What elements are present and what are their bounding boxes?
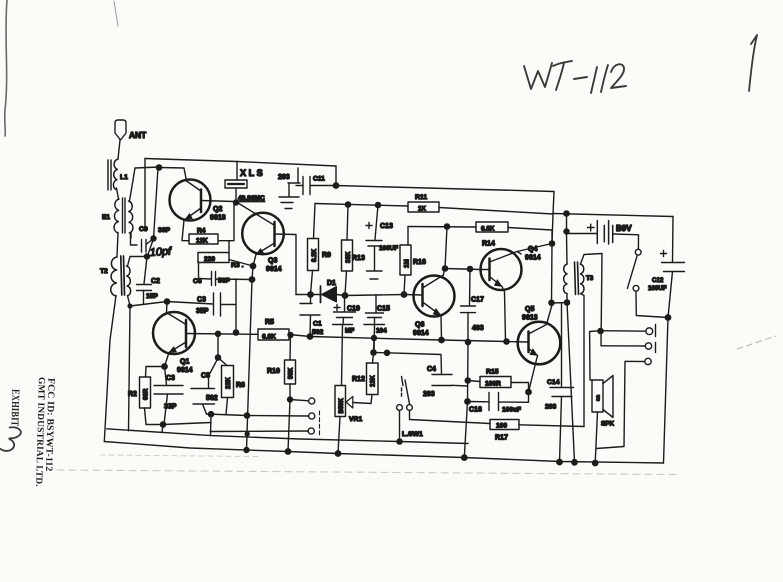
svg-text:L1: L1 (120, 174, 128, 181)
svg-text:C13: C13 (380, 223, 393, 230)
wire Q2 base to crystal node (201, 201, 236, 241)
svg-text:9014: 9014 (177, 367, 193, 374)
PART8:SWITCHROW (374, 350, 585, 444)
inductor L1 (113, 159, 118, 190)
svg-text:8Ω: 8Ω (596, 395, 601, 401)
wire battery column to Q4 collector (551, 230, 553, 244)
node Q4 base row left (442, 266, 447, 271)
svg-text:100UF: 100UF (648, 285, 667, 292)
wire node down to C2 (144, 257, 147, 285)
wire T3 right bottom drop (581, 294, 585, 427)
wire top rail A (145, 159, 336, 167)
resistor R6 22K (219, 358, 228, 366)
PART10:BOTTOM (104, 429, 663, 466)
svg-text:100uF: 100uF (502, 407, 521, 414)
node battery column low (549, 300, 554, 305)
jack terminal circles right (646, 328, 653, 335)
svg-text:Q3: Q3 (268, 258, 277, 265)
wire jack low to C8 row drop (210, 430, 308, 433)
svg-text:D1: D1 (327, 280, 336, 287)
scan tick top (114, 1, 118, 26)
svg-text:C1: C1 (313, 321, 322, 328)
node bottom row right (bus) (244, 413, 249, 418)
node battery branch (564, 211, 569, 216)
wire 6.8K right to battery column (508, 228, 552, 231)
svg-text:10pf: 10pf (149, 245, 172, 259)
node R13 top (345, 202, 350, 207)
svg-text:12K: 12K (370, 375, 377, 387)
wire Q3 emitter to node (253, 255, 256, 267)
wire emitter bus upper (252, 266, 253, 280)
wire switch pole2 to R17 (410, 410, 491, 423)
faint dashed fold line bottom (57, 470, 676, 475)
node R16/6.8K (444, 224, 449, 229)
node bus main rail (244, 448, 249, 453)
wire node to Q3 collector (diagonal) (236, 203, 274, 226)
wire T3 left top to battery node (566, 234, 569, 265)
node rail R10 (285, 449, 290, 454)
transistor Q6 (414, 276, 455, 317)
resistor R10 56K (288, 333, 293, 338)
wire detector row right (345, 295, 404, 296)
wire R9 top lead (314, 204, 316, 239)
wire bus to R15 (468, 381, 480, 382)
wire node down to rail2 (162, 425, 163, 433)
node bottom row left (208, 412, 213, 417)
node battery/Q4 (549, 241, 554, 246)
wire R12 top lead (373, 338, 375, 363)
resistor R16 1M (400, 245, 411, 275)
wire R4 to 220 (228, 241, 230, 253)
wire Q3 base right then down to detector line (275, 234, 297, 295)
svg-text:33K: 33K (345, 251, 352, 263)
svg-text:403: 403 (472, 325, 484, 332)
capacitor C6 56P row (199, 272, 253, 286)
svg-text:9013: 9013 (522, 315, 538, 322)
core T1 (123, 198, 126, 233)
wire ground rail2 (107, 429, 468, 444)
wire T1 secondary bottom (130, 233, 132, 238)
svg-text:203: 203 (545, 404, 557, 411)
wire T1 secondary top to node (130, 167, 160, 201)
speaker SPK (592, 380, 603, 412)
wire R10 to jack tip (290, 400, 309, 401)
node T2 top (145, 254, 150, 259)
svg-text:C4: C4 (427, 366, 436, 373)
wire Q5 emitter drop (529, 356, 538, 393)
wire 220 left lead down to C6 row (198, 262, 200, 279)
svg-text:R13: R13 (352, 255, 365, 262)
svg-text:502: 502 (312, 329, 324, 336)
transformer T2 right winding (127, 266, 131, 296)
svg-text:15P: 15P (146, 293, 158, 300)
wire R9 bottom lead (311, 271, 313, 295)
wire main ground rail (104, 442, 663, 464)
switch L.SW1 (402, 377, 410, 405)
svg-text:SPK: SPK (601, 421, 615, 428)
svg-text:8.2K: 8.2K (311, 248, 318, 262)
wire L1 to T1 (117, 188, 119, 199)
svg-text:Q1: Q1 (180, 359, 189, 366)
wire VR1 bottom to main rail (338, 417, 340, 454)
wire node to Q2 collector (159, 168, 187, 182)
handwritten pen slash top right (749, 35, 757, 91)
svg-text:C3: C3 (166, 375, 175, 382)
wire Q1 base row (186, 333, 258, 336)
wire switch drop (399, 410, 401, 441)
core T2 (121, 256, 125, 295)
PART4:TOPRAILS (145, 159, 673, 244)
transistor Q2 (170, 180, 211, 221)
wire R10 drop to main rail (288, 400, 290, 452)
node C1 bottom (307, 334, 312, 339)
wire Q6 collector riser (445, 227, 447, 269)
wire R16 bottom lead (404, 275, 405, 295)
wire jack mid to bus (247, 415, 309, 418)
node bus rail cross (465, 339, 470, 344)
wire R11 right (439, 208, 553, 215)
node C6 row right (249, 277, 254, 282)
wire node to speaker (590, 331, 601, 380)
wire C9 branch vertical b (154, 168, 159, 239)
wire R15 right to Q5 emitter node (511, 383, 529, 393)
resistor R9 8.2K (308, 239, 319, 271)
handwritten WT-112 (524, 61, 626, 93)
capacitor C2 (137, 285, 152, 291)
svg-text:C11: C11 (313, 176, 325, 183)
svg-text:203: 203 (423, 391, 435, 398)
PART6:IFAMP (289, 222, 555, 458)
node rail SPK (593, 460, 598, 465)
svg-text:30P: 30P (158, 227, 171, 234)
wire R10 bottom (289, 384, 291, 400)
svg-text:R2: R2 (128, 391, 137, 398)
capacitor C14 (561, 303, 563, 387)
svg-text:C14: C14 (547, 379, 560, 386)
svg-text:49.86MC: 49.86MC (238, 195, 265, 202)
resistor R2 68R (140, 377, 151, 408)
wire rail R11 row (315, 204, 408, 207)
wire Q6 emitter to rail (440, 316, 443, 340)
node T3 left bottom (564, 300, 569, 305)
wire speaker bottom (595, 412, 597, 463)
node C16 left (465, 399, 470, 404)
PART5:DETECTOR (296, 223, 407, 386)
node Q6 emitter rail (439, 337, 444, 342)
svg-text:X L S: X L S (240, 168, 263, 178)
jack dashed bar (319, 411, 321, 436)
svg-text:C6: C6 (193, 278, 202, 285)
svg-text:E1: E1 (102, 214, 110, 221)
svg-text:Q5: Q5 (525, 306, 534, 313)
svg-text:R10: R10 (267, 368, 280, 375)
node R10 bottom (288, 397, 293, 402)
svg-text:Q4: Q4 (528, 246, 537, 253)
wire detector row left (296, 294, 320, 296)
node C8/R6 split (215, 355, 220, 360)
wire C2 bottom (143, 291, 145, 305)
svg-text:C16: C16 (469, 407, 482, 414)
wire battery column (B+) down (551, 244, 554, 303)
wire jack2 (601, 345, 645, 347)
svg-text:R12: R12 (352, 376, 365, 383)
node bus rail2 cross (245, 432, 249, 436)
wire C17 bus down (464, 313, 468, 458)
node C13 top (375, 202, 380, 207)
svg-text:ANT: ANT (129, 130, 147, 140)
node T1-Q2 (156, 165, 161, 170)
wire T1 left bottom to T2 (117, 233, 118, 258)
node rail C14 (557, 459, 562, 464)
node R12/C4 tee (371, 350, 376, 355)
svg-text:104: 104 (376, 328, 387, 335)
wire rail C to right border (553, 214, 673, 217)
wire Q1 emitter drop (165, 353, 170, 367)
svg-text:9014: 9014 (413, 330, 429, 337)
svg-text:22K: 22K (225, 377, 232, 389)
svg-text:9014: 9014 (266, 266, 282, 273)
potentiometer VR1 B50K (335, 386, 346, 417)
svg-text:56K: 56K (288, 367, 295, 379)
svg-text:68R: 68R (143, 388, 150, 400)
svg-text:L.SW1: L.SW1 (402, 431, 423, 438)
node C12 column (665, 315, 670, 320)
wire Q4 emitter down to Q5 base (502, 287, 506, 342)
antenna ANT (115, 120, 126, 140)
svg-text:VR1: VR1 (349, 416, 362, 423)
svg-text:220: 220 (204, 256, 215, 263)
transformer T1 right winding (129, 201, 133, 233)
node R16 bottom junction (401, 292, 406, 297)
node R2/C3 bottom (160, 422, 165, 427)
wire rail B (336, 186, 554, 192)
wire right border down (664, 272, 673, 464)
node base-C3 branch (233, 330, 238, 335)
transistor Q3 (242, 213, 284, 255)
svg-text:R16: R16 (413, 259, 426, 266)
node VR1 ground (335, 451, 340, 456)
svg-text:R5: R5 (265, 319, 274, 326)
resistor R17 100 (490, 420, 519, 430)
wire ant lead (118, 140, 120, 159)
svg-text:33P: 33P (164, 404, 177, 411)
resistor R14 6.8K (476, 222, 508, 232)
svg-text:9018: 9018 (210, 215, 226, 222)
PART9:RIGHTSIDE (507, 214, 685, 464)
jack terminal circles left (309, 398, 315, 404)
svg-text:100UF: 100UF (379, 245, 398, 252)
handwritten 3 (rotated) (0, 425, 23, 455)
svg-text:100R: 100R (485, 381, 501, 388)
wire R13 bottom lead (345, 271, 347, 295)
svg-text:6.8K: 6.8K (262, 334, 276, 341)
wire C4 feed row (374, 353, 442, 375)
svg-text:R11: R11 (415, 194, 427, 201)
wire jack3 (596, 361, 644, 448)
svg-text:C17: C17 (471, 297, 484, 304)
transistor Q5 (518, 322, 561, 365)
svg-text:203: 203 (278, 174, 290, 181)
capacitor C16 100uF (468, 392, 529, 411)
svg-text:T2: T2 (100, 268, 108, 275)
svg-text:35P: 35P (196, 308, 209, 315)
node Q1 emitter junction (162, 364, 167, 369)
resistor R3 220 (198, 253, 229, 263)
wire 6.8K feed row (408, 226, 476, 229)
svg-text:R17: R17 (495, 435, 508, 442)
svg-text:502: 502 (206, 395, 218, 402)
wire battery to power switch (613, 234, 639, 249)
wire R16 top lead (407, 227, 409, 246)
wire C13 top lead (375, 205, 378, 240)
node Q1 collector junction (164, 299, 169, 304)
svg-text:B50K: B50K (339, 397, 345, 413)
jack contact bars (655, 325, 657, 353)
PART2:ANT-T1-T2 (100, 120, 187, 442)
svg-text:R14: R14 (482, 241, 495, 248)
svg-text:Q2: Q2 (213, 206, 222, 213)
PART7:Q1AUDIO (128, 279, 378, 456)
IF filter MF (333, 318, 353, 386)
svg-text:6.8K: 6.8K (481, 226, 495, 233)
capacitor C12 100UF (661, 251, 667, 257)
wire T3 left bottom (566, 294, 568, 303)
node detector left (308, 292, 313, 297)
node base-R6 branch (215, 331, 220, 336)
svg-text:EXHIBIT: EXHIBIT (8, 389, 21, 427)
wire T2 left bottom / outer border left (104, 296, 116, 442)
svg-text:R9: R9 (322, 252, 331, 259)
transformer T2 left winding (111, 257, 117, 296)
wire R2 bottom (145, 408, 212, 425)
power switch SW (635, 249, 641, 255)
svg-text:C2: C2 (151, 278, 160, 285)
wire rail A corner down (335, 166, 337, 186)
svg-text:C9: C9 (139, 226, 148, 233)
svg-text:1K: 1K (418, 206, 426, 213)
battery B9V (588, 224, 595, 231)
node speaker feed (598, 328, 603, 333)
svg-text:R15: R15 (486, 369, 499, 376)
node D1 cathode junction (342, 293, 347, 298)
svg-text:C15: C15 (377, 306, 390, 313)
wire C8/R6 bottom row (207, 414, 248, 416)
wire T2 secondary top to node (128, 257, 148, 267)
svg-text:C3: C3 (197, 297, 206, 304)
svg-text:56P: 56P (218, 278, 231, 285)
wire node to jack 1 (601, 330, 646, 333)
svg-text:1M: 1M (404, 259, 411, 268)
node rail T3 (572, 460, 577, 465)
wire R6 bottom (226, 398, 228, 415)
svg-text:12K: 12K (196, 238, 208, 245)
wire T2 secondary bottom to node (128, 296, 168, 307)
wire node drop to rail2 (210, 414, 213, 435)
capacitor C19 (334, 305, 340, 311)
node Q3 emitter (250, 263, 255, 268)
node C4 feed (384, 350, 389, 355)
capacitor C13 100UF (366, 223, 372, 229)
wire T3 left bottom long drop (567, 303, 575, 463)
wire Q2 emitter to R4 (182, 220, 189, 241)
wire emitter to R2 (146, 367, 165, 378)
svg-text:B9V: B9V (616, 224, 632, 233)
wire main bias rail R5 to Q5 (289, 335, 507, 342)
node Q5 emitter junction (526, 389, 531, 394)
scan edge artifact left (5, 0, 7, 136)
faint dashed diagonal right (737, 336, 776, 349)
node 104 rail cross (372, 336, 377, 341)
wire C8/R6 branch (217, 334, 219, 358)
wire VR1 wiper to R12 (353, 395, 372, 404)
wire Q4 base row (445, 269, 481, 270)
PART3:Q2-XLS-Q3 (170, 162, 297, 453)
wire C9 branch vertical a (144, 159, 146, 227)
node rail C17bus (462, 455, 467, 460)
wire Q5 collector row (553, 302, 568, 305)
svg-text:MF: MF (345, 328, 354, 335)
wire T2 bottom long drop to lower rail (129, 306, 131, 431)
node T2 bottom junction (128, 304, 132, 308)
resistor R13 33K (342, 240, 353, 271)
transformer T1 left winding (114, 199, 119, 233)
wire rail B corner down to battery column (552, 192, 554, 244)
wire T3 right top to speaker node (581, 254, 603, 346)
node Q4-Q5 junction (504, 339, 509, 344)
wire 220 right to Q3 emitter node (229, 260, 253, 267)
svg-text:R6: R6 (236, 382, 245, 389)
svg-text:C12: C12 (652, 277, 664, 284)
node rail B left (333, 183, 338, 188)
IF filter 104 (364, 318, 385, 353)
svg-text:100: 100 (496, 423, 507, 430)
wire switch to C12 column (636, 291, 668, 317)
resistor R12 12K (367, 363, 379, 395)
wire C4 bottom to C16 node (452, 384, 468, 387)
transistor Q4 (481, 249, 522, 290)
transistor Q1 (153, 312, 195, 354)
core T1 upper (108, 160, 111, 190)
svg-text:9014: 9014 (525, 255, 541, 262)
node R15 bus (465, 378, 470, 383)
capacitor C1 502 (300, 295, 320, 337)
wire R13 top lead (347, 205, 348, 241)
node switch rail2 (397, 439, 402, 444)
svg-text:T3: T3 (586, 275, 594, 282)
wire emitter bus long drop (247, 280, 253, 451)
wire R17 right to T3 column (519, 425, 584, 427)
node crystal base junction (234, 200, 239, 205)
svg-text:Q6: Q6 (415, 322, 424, 329)
node C17 top (467, 266, 472, 271)
